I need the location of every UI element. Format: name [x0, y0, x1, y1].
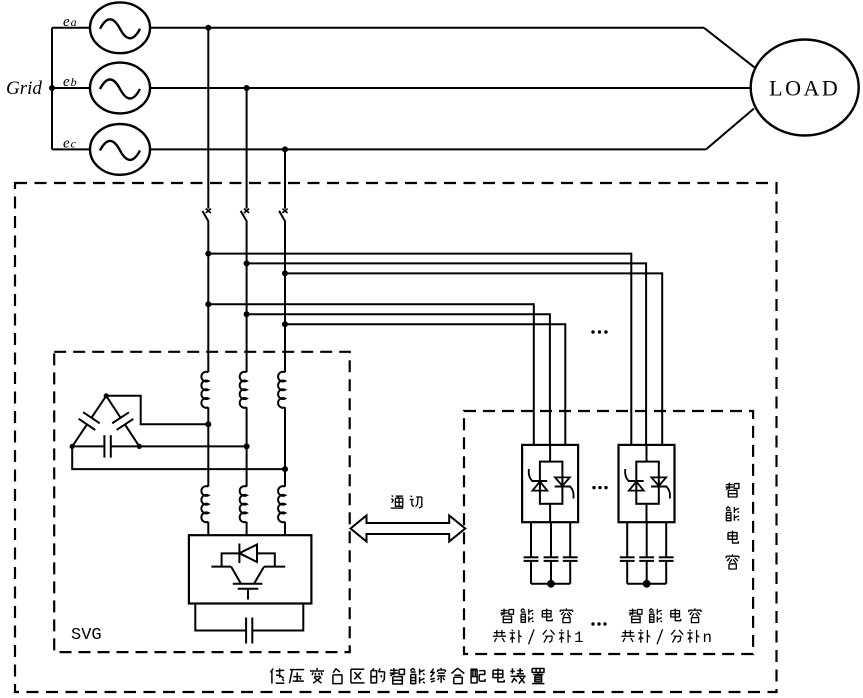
thyristor V1 M2: [628, 480, 644, 482]
wire feeder a1 drop: [533, 303, 535, 445]
node module star point M2: [643, 580, 651, 588]
wire phase a diagonal: [704, 28, 755, 68]
converter box: [189, 535, 312, 603]
wire feeder b2 drop: [645, 262, 647, 445]
svg-text:Grid: Grid: [6, 78, 42, 99]
wire phase c drop lower: [284, 221, 286, 372]
AC source ec: [90, 124, 150, 175]
label 通讯: [392, 495, 393, 496]
node delta top: [104, 393, 109, 398]
label module2 共补/分补n: [624, 630, 626, 636]
wire left grid bus: [51, 28, 53, 150]
wire phase a mid segment: [207, 407, 209, 486]
node phase a tap: [205, 25, 211, 31]
breaker QF2: [244, 209, 249, 213]
SVG dashed box: [54, 352, 350, 652]
label module1 智能电容: [501, 610, 508, 612]
svg-text:ea: ea: [63, 14, 77, 30]
inductor L4 (lower): [201, 486, 208, 522]
wire module bottom bar M2: [627, 583, 666, 585]
wire phase c diagonal: [706, 109, 754, 150]
junction on grid bus: [49, 85, 55, 91]
wire module M1 leg 3 lower: [569, 561, 571, 584]
wire feeder a1 horizontal: [208, 303, 534, 305]
label module2 智能电容: [629, 610, 636, 612]
wire delta top to phase a: [106, 396, 208, 424]
node feeder tap b2: [244, 260, 250, 266]
module box M2: [619, 445, 675, 522]
transistor Q1 (IGBT): [211, 566, 231, 568]
wire feeder c2 drop: [661, 272, 663, 445]
communication arrow: [351, 516, 466, 542]
wire phase b drop lower: [246, 221, 248, 372]
inductor L6 (lower): [278, 486, 285, 522]
load circle: [751, 40, 859, 136]
wire bus to source eb: [52, 87, 90, 89]
node phase b tap: [244, 85, 250, 91]
breaker QF3: [282, 209, 287, 213]
wire module bottom bar M1: [531, 583, 570, 585]
wire module center bottom M1: [549, 504, 551, 522]
svg-text:1: 1: [574, 629, 583, 647]
capacitor delta side ab: [91, 396, 106, 418]
capacitor Cdc: [195, 604, 246, 631]
wire phase b to load: [150, 87, 751, 89]
node feeder tap c1: [282, 321, 288, 327]
wire phase a drop upper: [207, 28, 209, 209]
outer dashed enclosure (distribution device): [15, 183, 777, 692]
node phase a delta tap: [205, 421, 211, 427]
wire bus to source ec: [52, 148, 90, 150]
wire module center top M1: [549, 445, 551, 462]
inductor L1 (upper): [201, 372, 208, 408]
wire phase a drop lower: [207, 221, 209, 372]
svg-text:eb: eb: [63, 74, 77, 90]
wire delta BL to phase c: [72, 446, 285, 469]
capacitor M1-1: [524, 556, 539, 558]
node feeder tap c2: [282, 270, 288, 276]
inductor L5 (lower): [240, 486, 247, 522]
thyristor block M2: [636, 462, 659, 504]
wire feeder b2 horizontal: [247, 262, 646, 264]
node feeder tap b1: [244, 311, 250, 317]
wire feeder c1 horizontal: [285, 323, 565, 325]
breaker QF1: [206, 209, 211, 213]
wire phase a to converter: [207, 522, 209, 535]
smart capacitor dashed box: [464, 411, 753, 654]
thyristor V1 M1: [532, 480, 548, 482]
wire feeder c2 horizontal: [285, 272, 662, 274]
node feeder tap a1: [205, 301, 211, 307]
capacitor M2-3: [659, 556, 674, 558]
wire bus to source ea: [52, 27, 90, 29]
thyristor V2 M2: [651, 486, 667, 488]
wire module M1 leg 2 lower: [550, 561, 552, 584]
wire module M2 leg 2 lower: [646, 561, 648, 584]
ellipsis between labels: [591, 622, 594, 625]
node feeder tap a2: [205, 251, 211, 257]
wire module M1 leg 1 lower: [530, 561, 532, 584]
label 智能电容 (vertical): [726, 484, 733, 486]
wire module M1 leg 2: [550, 522, 552, 557]
wire phase c to load: [150, 148, 706, 150]
wire module M2 leg 3 lower: [665, 561, 667, 584]
inductor L2 (upper): [240, 372, 247, 408]
wire module center top M2: [646, 445, 648, 462]
thyristor block M1: [540, 462, 563, 504]
wire feeder a2 drop: [630, 253, 632, 446]
node module star point M1: [547, 580, 555, 588]
wire feeder a2 horizontal: [208, 253, 631, 255]
wire phase c drop upper: [284, 149, 286, 208]
caption 低压变台区的智能综合配电装置: [270, 669, 273, 673]
wire feeder b1 drop: [549, 313, 551, 445]
node phase c tap: [282, 146, 288, 152]
svg-text:ec: ec: [63, 135, 77, 151]
capacitor delta side bc: [72, 445, 104, 447]
wire module M2 leg 1 lower: [626, 561, 628, 584]
diode D1: [238, 544, 240, 564]
wire module M1 leg 3: [569, 522, 571, 557]
capacitor delta side ac: [106, 396, 120, 418]
node delta bottom-right: [137, 444, 142, 449]
wire phase b mid segment: [246, 407, 248, 486]
label module1 共补/分补1: [496, 630, 498, 636]
wire module M2 leg 1: [626, 522, 628, 557]
svg-text:SVG: SVG: [71, 626, 102, 645]
capacitor M1-2: [544, 556, 559, 558]
AC source ea: [90, 2, 150, 53]
wire module M2 leg 3: [665, 522, 667, 557]
wire phase a to load: [150, 27, 704, 29]
capacitor M1-3: [563, 556, 578, 558]
svg-text:n: n: [703, 629, 712, 647]
capacitor M2-1: [620, 556, 635, 558]
ellipsis feeders: [591, 330, 594, 333]
capacitor M2-2: [639, 556, 654, 558]
node phase b delta tap: [244, 443, 250, 449]
wire phase c mid segment: [284, 407, 286, 486]
wire module M2 leg 2: [646, 522, 648, 557]
node delta bottom-left: [70, 444, 75, 449]
wire feeder b1 horizontal: [247, 313, 550, 315]
wire module M1 leg 1: [530, 522, 532, 557]
wire phase b drop upper: [246, 88, 248, 209]
ellipsis between modules: [592, 486, 595, 489]
node phase c delta tap: [282, 466, 288, 472]
wire feeder c1 drop: [564, 323, 566, 445]
thyristor V2 M1: [555, 486, 571, 488]
wire phase b to converter: [246, 522, 248, 535]
module box M1: [522, 445, 578, 522]
wire delta BR to phase b: [139, 445, 246, 447]
wire module center bottom M2: [646, 504, 648, 522]
wire diode loop: [222, 553, 240, 566]
AC source eb: [90, 63, 150, 114]
wire phase c to converter: [284, 522, 286, 535]
svg-text:LOAD: LOAD: [769, 76, 840, 101]
inductor L3 (upper): [278, 372, 285, 408]
